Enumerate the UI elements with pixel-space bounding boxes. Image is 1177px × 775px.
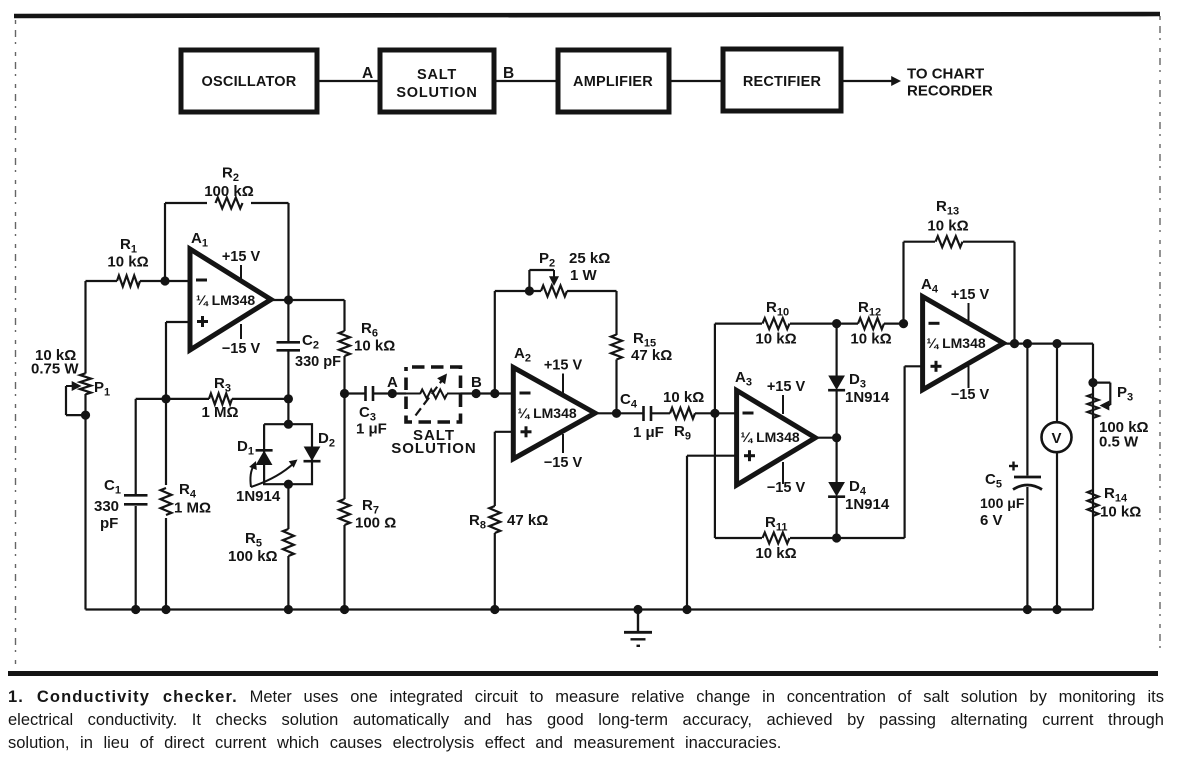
wire left rail from R1 down to bus (84, 281, 86, 610)
page border top rule (14, 14, 1160, 16)
svg-text:1 μF: 1 μF (633, 424, 664, 441)
label A2 (514, 345, 531, 365)
junction node D3 D4 midpoint (832, 433, 841, 442)
label R2 value (204, 165, 254, 201)
label 1N914 for D1 D2 (236, 488, 281, 505)
potentiometer P2 wire (495, 290, 617, 292)
svg-text:V: V (1051, 430, 1061, 447)
label R7 value (355, 497, 396, 532)
svg-text:1 μF: 1 μF (356, 421, 387, 438)
svg-text:+15 V: +15 V (951, 287, 990, 303)
resistor R6 (339, 331, 350, 356)
label node A (387, 374, 398, 391)
op-amp A3 device label 1/4 LM348 (741, 429, 800, 445)
junction node bus C1 (131, 605, 140, 614)
svg-text:A: A (362, 65, 373, 82)
curved arrow from 1N914 to D2 (251, 460, 298, 488)
resistor R14 (1088, 490, 1099, 516)
op-amp A4 +15 V supply (951, 287, 990, 321)
salt solution dashed box (406, 367, 461, 422)
block RECTIFIER (723, 49, 841, 111)
svg-text:P2: P2 (539, 250, 555, 270)
arrow rectifier to chart recorder (841, 76, 901, 86)
op-amp A2 device label 1/4 LM348 (518, 405, 577, 421)
diode D3 (pointing down) (828, 376, 845, 390)
op-amp A4 -15 V supply (951, 366, 990, 403)
junction node A1 inverting input (160, 276, 169, 285)
label R5 value (228, 530, 278, 565)
label R6 value (354, 320, 395, 355)
wire voltmeter vertical (1056, 344, 1058, 610)
wire A1 output to R6 top (343, 300, 345, 331)
block SALT SOLUTION (380, 50, 494, 112)
junction node A1 output (284, 295, 293, 304)
label R14 value (1100, 485, 1141, 521)
svg-text:47 kΩ: 47 kΩ (507, 512, 548, 529)
wire D4 branch (835, 438, 837, 538)
svg-text:100 kΩ: 100 kΩ (228, 548, 278, 565)
junction node P3 top (1088, 378, 1097, 387)
junction node A4 output / R13 (1010, 339, 1019, 348)
resistor R12 (837, 318, 904, 329)
capacitor C1 (124, 495, 148, 504)
svg-text:47 kΩ: 47 kΩ (631, 347, 672, 364)
svg-text:R5: R5 (245, 530, 262, 550)
svg-text:R10: R10 (766, 299, 789, 319)
page border left dotted edge (15, 20, 17, 668)
svg-text:+15 V: +15 V (544, 358, 583, 374)
junction node A4 inverting input (899, 319, 908, 328)
potentiometer P3 element (1088, 394, 1099, 418)
capacitor C3 (366, 386, 374, 401)
svg-text:10 kΩ: 10 kΩ (354, 338, 395, 355)
svg-text:R8: R8 (469, 512, 486, 532)
label P2 value (569, 250, 610, 284)
svg-text:A3: A3 (735, 369, 752, 389)
svg-text:A4: A4 (921, 276, 939, 296)
junction node diode pair top (284, 420, 293, 429)
label TO CHART RECORDER (907, 66, 993, 100)
block AMPLIFIER (558, 50, 669, 112)
op-amp A4 minus input symbol (929, 322, 940, 325)
svg-text:¼ LM348: ¼ LM348 (927, 335, 986, 351)
wire A3 noninverting input to ground rail (687, 456, 737, 610)
label R15 value (631, 330, 672, 364)
wire C1 branch down (135, 399, 137, 610)
label P1 value (31, 347, 79, 378)
svg-text:RECORDER: RECORDER (907, 83, 993, 100)
capacitor C5 (electrolytic) (1013, 477, 1042, 490)
svg-text:1N914: 1N914 (845, 496, 890, 513)
junction node C5 branch (1023, 339, 1032, 348)
junction node R11 / D4 (832, 533, 841, 542)
label P3 (1117, 384, 1133, 404)
svg-text:10 kΩ: 10 kΩ (663, 389, 704, 406)
svg-text:R12: R12 (858, 299, 881, 319)
svg-text:R4: R4 (179, 481, 197, 501)
junction node bus A3 plus (682, 605, 691, 614)
label R10 value (755, 299, 796, 348)
svg-text:C1: C1 (104, 477, 121, 497)
svg-text:P1: P1 (94, 379, 110, 399)
wire R2 left leg down to inverting input (164, 203, 166, 281)
svg-text:A1: A1 (191, 230, 208, 250)
svg-text:−15 V: −15 V (767, 480, 806, 496)
resistor R9 (670, 408, 695, 419)
junction node bus R4 (161, 605, 170, 614)
junction node diode pair bottom (284, 480, 293, 489)
op-amp A4 device label 1/4 LM348 (927, 335, 986, 351)
svg-text:C4: C4 (620, 391, 638, 411)
svg-text:10 kΩ: 10 kΩ (850, 331, 891, 348)
wire R6 to R7 (343, 356, 345, 499)
junction node bus R5 (284, 605, 293, 614)
svg-text:10 kΩ: 10 kΩ (755, 331, 796, 348)
op-amp A1 +15 V supply (222, 249, 261, 283)
svg-text:10 kΩ: 10 kΩ (755, 545, 796, 562)
op-amp A3 triangle (737, 390, 816, 485)
salt solution variable resistor (406, 390, 461, 399)
wire C2 vertical (287, 300, 289, 424)
svg-text:RECTIFIER: RECTIFIER (743, 74, 822, 90)
svg-text:0.5 W: 0.5 W (1099, 434, 1139, 451)
svg-text:TO CHART: TO CHART (907, 66, 984, 83)
svg-text:C2: C2 (302, 332, 319, 352)
svg-text:R3: R3 (214, 375, 231, 395)
label R13 value (927, 198, 968, 235)
resistor R5 (283, 529, 294, 556)
op-amp A2 minus input symbol (520, 392, 531, 395)
resistor R11 (763, 366, 905, 543)
diode D2 (pointing down) (304, 447, 321, 461)
svg-text:C5: C5 (985, 471, 1002, 491)
svg-text:1 W: 1 W (570, 267, 598, 284)
potentiometer P1 wiper arrow (66, 381, 82, 391)
svg-text:D1: D1 (237, 438, 254, 458)
op-amp A1 device label 1/4 LM348 (196, 292, 255, 308)
junction node P2 wiper (525, 286, 534, 295)
capacitor C5 plus sign (1009, 462, 1018, 471)
svg-text:R13: R13 (936, 198, 959, 218)
wire A2 output (595, 412, 643, 414)
label D2 (318, 430, 335, 450)
wire C4 to R9 (652, 412, 671, 414)
ground bus wire (86, 608, 1094, 610)
wire R2 right leg down to A1 output (287, 203, 289, 300)
potentiometer P3 wiper arrow (1100, 401, 1110, 411)
junction node bus C5 (1023, 605, 1032, 614)
wire D3 branch (835, 324, 837, 438)
potentiometer P1 wiper return wire (66, 386, 86, 415)
junction node bus voltmeter (1052, 605, 1061, 614)
label R1 value (107, 236, 148, 271)
svg-text:−15 V: −15 V (222, 341, 261, 357)
wire A3 input node up to R10 (714, 324, 716, 414)
wire node B up to P2 (494, 291, 496, 394)
capacitor C4 (644, 406, 652, 421)
label C5 value (980, 471, 1025, 529)
svg-text:R14: R14 (1104, 485, 1128, 505)
svg-text:¼ LM348: ¼ LM348 (196, 292, 255, 308)
op-amp A3 +15 V supply (767, 379, 806, 414)
resistor R4 (161, 488, 172, 515)
svg-text:6 V: 6 V (980, 512, 1003, 529)
label R9 (663, 389, 704, 443)
wire A3 output (815, 437, 836, 439)
potentiometer P3 wiper bracket (1093, 383, 1110, 405)
op-amp A2 -15 V supply (544, 434, 583, 471)
wire R9 to A3 input node (695, 412, 715, 414)
label A3 (735, 369, 752, 389)
svg-text:10 kΩ: 10 kΩ (107, 254, 148, 271)
label P3 value (1099, 419, 1149, 451)
op-amp A1 plus input symbol (197, 316, 208, 327)
svg-text:R2: R2 (222, 165, 239, 185)
ground symbol (624, 610, 652, 646)
op-amp A2 plus input symbol (521, 426, 532, 437)
page border right dotted edge (1159, 16, 1161, 656)
wire A2 noninverting input down through R8 (495, 432, 514, 610)
svg-text:pF: pF (100, 515, 118, 532)
wire C3 to node A (374, 392, 407, 394)
junction node voltmeter branch (1052, 339, 1061, 348)
label R12 value (850, 299, 891, 348)
node B dot (472, 389, 481, 398)
label D4 (845, 478, 890, 513)
op-amp A1 minus input symbol (196, 279, 207, 282)
svg-text:1N914: 1N914 (236, 488, 281, 505)
resistor R1 (86, 276, 191, 287)
junction node P2 branch (490, 389, 499, 398)
caption separator rule (8, 671, 1158, 676)
svg-text:P3: P3 (1117, 384, 1133, 404)
label C1 value (94, 477, 121, 532)
wire amplifier to rectifier (669, 80, 723, 82)
svg-text:A: A (387, 374, 398, 391)
resistor R3 (136, 393, 289, 404)
svg-text:100 kΩ: 100 kΩ (204, 183, 254, 200)
label P2 (539, 250, 555, 270)
svg-text:1 MΩ: 1 MΩ (174, 500, 211, 517)
capacitor C2 (277, 342, 301, 350)
op-amp A2 +15 V supply (544, 358, 583, 394)
wire R4 branch down (165, 399, 167, 610)
label R11 value (755, 514, 796, 562)
wire diode pair box (264, 424, 312, 484)
potentiometer P1 element (80, 373, 91, 394)
wire A1 noninverting input to R3 node (166, 322, 190, 399)
op-amp A3 minus input symbol (743, 412, 754, 415)
svg-text:100 Ω: 100 Ω (355, 515, 396, 532)
svg-text:R11: R11 (765, 514, 787, 534)
svg-text:10 kΩ: 10 kΩ (1100, 504, 1141, 521)
label R3 value (201, 375, 238, 421)
svg-text:¼ LM348: ¼ LM348 (741, 429, 800, 445)
label SALT SOLUTION (391, 427, 477, 457)
svg-text:D4: D4 (849, 478, 867, 498)
potentiometer P2 wiper return wire (529, 270, 554, 291)
svg-text:SALT: SALT (417, 67, 457, 83)
wire R13 right leg down to output (1013, 242, 1015, 344)
svg-text:1N914: 1N914 (845, 389, 890, 406)
wire D-box bottom to R5 (287, 484, 289, 609)
curved arrow from 1N914 to D1 (249, 461, 257, 487)
svg-text:D2: D2 (318, 430, 335, 450)
label D1 (237, 438, 254, 458)
label C3 value (356, 404, 387, 438)
resistor R10 (715, 318, 837, 329)
svg-text:25 kΩ: 25 kΩ (569, 250, 610, 267)
junction node P1 wiper (81, 411, 90, 420)
op-amp A4 plus input symbol (931, 361, 942, 372)
op-amp A4 triangle (923, 297, 1004, 390)
junction node A2 output / R15 (612, 409, 621, 418)
node A dot (388, 389, 397, 398)
op-amp A1 -15 V supply (222, 324, 261, 357)
label D3 (845, 371, 890, 406)
junction node bus R7 (340, 605, 349, 614)
junction node R3 right / C2 (284, 394, 293, 403)
junction node bus R8 (490, 605, 499, 614)
svg-text:0.75 W: 0.75 W (31, 361, 79, 378)
wire output right leg down to P3 (1092, 344, 1094, 610)
label C2 value (295, 332, 341, 370)
salt solution arrow (416, 374, 448, 416)
wire A1 output (271, 299, 345, 301)
op-amp A3 -15 V supply (767, 462, 806, 496)
wire R7 to bus (343, 525, 345, 610)
label P1 (94, 379, 110, 399)
svg-text:100 μF: 100 μF (980, 495, 1025, 511)
op-amp A3 plus input symbol (744, 450, 755, 461)
resistor R8 (489, 506, 500, 533)
wire P2 right leg down to R15 (615, 291, 617, 335)
block OSCILLATOR (181, 50, 317, 112)
label C4 (620, 391, 664, 441)
label R8 (469, 512, 548, 532)
op-amp A1 triangle (190, 249, 271, 350)
svg-text:SOLUTION: SOLUTION (391, 440, 477, 457)
svg-text:R9: R9 (674, 423, 691, 443)
svg-text:B: B (503, 65, 514, 82)
svg-text:−15 V: −15 V (951, 387, 990, 403)
svg-text:¼ LM348: ¼ LM348 (518, 405, 577, 421)
svg-text:10 kΩ: 10 kΩ (927, 218, 968, 235)
svg-text:A2: A2 (514, 345, 531, 365)
potentiometer P2 wiper arrow (549, 270, 559, 286)
junction node R3 / A1 plus input (161, 394, 170, 403)
wire C5 vertical (1026, 344, 1028, 610)
label R4 value (174, 481, 211, 517)
op-amp A2 triangle (513, 367, 595, 458)
svg-text:OSCILLATOR: OSCILLATOR (202, 74, 297, 90)
resistor R13 (904, 236, 1015, 247)
svg-text:+15 V: +15 V (767, 379, 806, 395)
wire oscillator to salt solution (317, 80, 380, 82)
label A1 (191, 230, 208, 250)
wire node B to A2 (461, 392, 514, 394)
svg-text:+15 V: +15 V (222, 249, 261, 265)
resistor R7 (339, 499, 350, 525)
wire A4 noninverting input from R11 (905, 365, 923, 367)
label A4 (921, 276, 939, 296)
svg-text:1 MΩ: 1 MΩ (201, 404, 238, 421)
wire salt solution to amplifier (494, 80, 558, 82)
node label A (block diagram) (362, 65, 373, 82)
label node B (471, 374, 482, 391)
wire A3 input node to triangle (715, 412, 737, 414)
node label B (block diagram) (503, 65, 514, 82)
svg-text:−15 V: −15 V (544, 455, 583, 471)
junction node bus ground (633, 605, 642, 614)
junction node A3 inverting input (710, 409, 719, 418)
svg-text:D3: D3 (849, 371, 866, 391)
diode D4 (pointing down) (828, 483, 845, 497)
wire C3 left (345, 392, 366, 394)
wire R13 left leg (902, 242, 904, 324)
diode D1 (pointing up) (256, 450, 273, 464)
junction node R10 D3 R12 (832, 319, 841, 328)
wire A3 input node down to R11 (715, 413, 762, 538)
wire A4 output (1004, 343, 1094, 345)
svg-text:AMPLIFIER: AMPLIFIER (573, 74, 653, 90)
svg-text:330 pF: 330 pF (295, 354, 341, 370)
svg-text:SOLUTION: SOLUTION (396, 85, 477, 101)
resistor R15 (611, 335, 622, 360)
svg-text:330: 330 (94, 498, 119, 515)
voltmeter V (1042, 422, 1072, 452)
potentiometer P2 element (541, 286, 567, 297)
resistor R2 (feedback of A1) (165, 198, 289, 209)
wire R15 to A2 output (615, 360, 617, 414)
svg-text:B: B (471, 374, 482, 391)
junction node C3 tap (340, 389, 349, 398)
